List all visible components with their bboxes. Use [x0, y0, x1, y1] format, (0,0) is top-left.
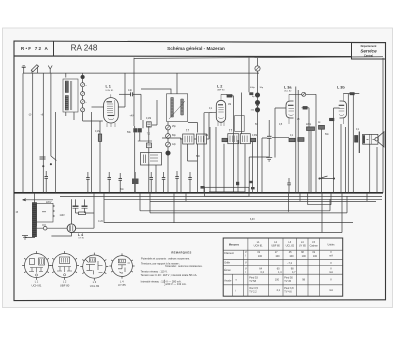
trimmer capacitor chain input	[81, 73, 88, 121]
coil winding a	[65, 81, 68, 93]
table outer frame	[223, 238, 343, 296]
capacitor mid	[267, 120, 272, 157]
wire top HT rail	[134, 57, 383, 59]
antenna ground electrode	[22, 66, 26, 74]
svg-text:220V: 220V	[46, 202, 52, 204]
svg-text:Mesures: Mesures	[229, 243, 240, 246]
resistor smoothing	[76, 212, 95, 215]
trimmer capacitor above L3a	[302, 92, 306, 96]
svg-text:RA 248: RA 248	[71, 43, 98, 52]
tube L1 envelope	[104, 98, 119, 123]
svg-text:k: k	[86, 102, 87, 104]
socket L4 label	[118, 279, 126, 287]
svg-text:UY 85: UY 85	[118, 283, 126, 287]
svg-text:4,7: 4,7	[292, 271, 296, 274]
svg-text:UCH 81: UCH 81	[106, 90, 115, 92]
wire rail 7	[70, 232, 342, 234]
wire under coil	[83, 120, 103, 122]
wire vertical x134	[133, 58, 135, 126]
svg-text:TV 58: TV 58	[249, 280, 256, 283]
wire vertical x141	[140, 94, 142, 120]
capacitor above chassis far left c	[119, 173, 123, 193]
svg-text:6,3V: 6,3V	[250, 219, 255, 221]
tube socket L2	[50, 251, 79, 280]
svg-text:100: 100	[258, 255, 263, 258]
wire rail 6	[104, 222, 353, 224]
svg-text:L 2: L 2	[217, 84, 222, 88]
outer drawing border frame	[14, 41, 386, 301]
svg-text:0,3M: 0,3M	[252, 135, 257, 137]
svg-text:REMARQUES: REMARQUES	[171, 250, 191, 254]
power transformer primary winding	[32, 193, 36, 237]
resistor box pair	[147, 100, 158, 193]
socket L2 label	[60, 280, 70, 288]
svg-text:L 4: L 4	[78, 233, 83, 237]
divider RIF cell	[53, 41, 55, 56]
svg-text:L 1: L 1	[106, 85, 111, 89]
wire verticals mid-left	[91, 112, 93, 193]
svg-text:UCH 81: UCH 81	[32, 284, 42, 288]
tube socket L1	[22, 251, 51, 280]
capacitor above chassis mid e	[188, 172, 192, 193]
svg-text:L 3a: L 3a	[284, 85, 292, 89]
svg-text:C.20: C.20	[98, 221, 104, 223]
wire L3a links	[275, 87, 316, 193]
svg-text:TV 2,2: TV 2,2	[249, 290, 257, 293]
svg-text:mA: mA	[329, 289, 333, 292]
svg-text:UBF 80: UBF 80	[60, 284, 70, 288]
resistor right of L3a	[303, 107, 307, 110]
svg-text:UCL 82: UCL 82	[286, 244, 295, 247]
capacitor above chassis far left a	[45, 171, 49, 193]
wire verticals between stages	[238, 93, 262, 193]
socket L1 label	[32, 280, 42, 288]
IF transformer box pair 1	[180, 128, 209, 144]
svg-text:1,4: 1,4	[278, 271, 282, 274]
wire tube L1 anode	[118, 73, 125, 107]
ferrite rod antenna	[31, 65, 38, 74]
title block header	[14, 41, 386, 59]
svg-text:1M: 1M	[205, 135, 208, 137]
wire rail 3	[150, 200, 376, 202]
svg-text:Anode: Anode	[224, 279, 232, 282]
svg-text:400p: 400p	[250, 87, 256, 89]
svg-text:100: 100	[302, 255, 307, 258]
resistor L2 anode stopper	[227, 95, 232, 98]
table texts	[224, 241, 335, 294]
svg-text:Tension aux C.20 : 118 V ; int: Tension aux C.20 : 118 V ; intensité tot…	[141, 273, 198, 277]
potentiometer block above chassis	[132, 172, 139, 193]
switch right	[319, 176, 335, 179]
wire IF1 to L2	[209, 113, 212, 139]
svg-text:UCL 82: UCL 82	[90, 284, 100, 288]
antenna symbol	[48, 66, 52, 74]
wire chassis bus	[14, 192, 383, 194]
svg-text:Département: Département	[361, 44, 377, 48]
wire grid line to coil	[92, 106, 104, 108]
svg-text:4,1: 4,1	[277, 289, 281, 292]
socket L3 label	[90, 280, 100, 288]
svg-text:220 V — 132 mA.: 220 V — 132 mA.	[166, 282, 187, 286]
svg-text:100: 100	[275, 278, 280, 281]
svg-text:l’intensité : outre les résist: l’intensité : outre les résistances.	[165, 264, 203, 268]
resistor c	[289, 138, 295, 141]
choke coil near speaker	[355, 136, 358, 143]
capacitor row above chassis 1	[108, 172, 112, 193]
svg-text:TV 4,6: TV 4,6	[284, 290, 292, 293]
electrolytic capacitor C2	[82, 199, 88, 213]
wire L4 heater drop	[51, 193, 94, 236]
wire speaker feed vertical	[358, 132, 360, 154]
resistor b	[251, 138, 256, 141]
capacitor above chassis right a	[236, 182, 239, 185]
svg-text:100: 100	[313, 255, 318, 258]
resistor left mid	[98, 134, 101, 141]
IF trimmer chain	[250, 58, 264, 193]
svg-text:14p: 14p	[128, 89, 133, 92]
svg-text:UY 85: UY 85	[78, 238, 84, 240]
resistor under L1	[130, 115, 138, 193]
svg-text:Potentiels et courants : valeu: Potentiels et courants : valeurs moyenne…	[141, 257, 190, 261]
capacitor row above chassis 4	[175, 171, 179, 193]
output transformer	[363, 134, 378, 144]
svg-text:Cadran: Cadran	[310, 244, 319, 247]
svg-text:UCH 81: UCH 81	[254, 244, 264, 247]
fuse bead	[37, 226, 68, 230]
capacitor above chassis right c	[251, 187, 255, 189]
wire coil connections	[66, 73, 74, 120]
svg-text:0,1M: 0,1M	[146, 118, 151, 120]
svg-text:220p: 220p	[306, 124, 312, 126]
tube L3b envelope (half section)	[340, 101, 347, 118]
wire coil secondary drop	[55, 112, 57, 193]
svg-text:Unités: Unités	[327, 243, 335, 246]
capacitor row above chassis 3	[162, 172, 166, 193]
wire heater rail 1	[60, 195, 382, 197]
service dept box	[352, 43, 386, 59]
switch area left	[33, 156, 57, 193]
svg-text:110V: 110V	[60, 215, 66, 217]
electrolytic capacitor C1	[73, 199, 79, 213]
oscillator coil box T1	[167, 94, 188, 122]
capacitor coupling 14p	[119, 89, 141, 96]
capacitor row above chassis 2	[150, 172, 154, 193]
resistor a	[222, 138, 227, 141]
svg-text:1M: 1M	[228, 104, 231, 106]
resistor above chassis left	[201, 186, 205, 189]
tube L3b electrodes	[339, 93, 345, 124]
header bottom rule	[14, 55, 352, 58]
wire T1 top	[141, 89, 171, 94]
wire rail 4	[140, 210, 330, 212]
svg-text:Grille: Grille	[224, 262, 230, 265]
svg-text:0,1M: 0,1M	[95, 131, 100, 133]
coil winding b	[65, 96, 68, 111]
svg-text:L 3b: L 3b	[337, 85, 345, 89]
ground mid	[266, 158, 272, 162]
wire right verticals	[370, 58, 383, 193]
tube L2 envelope	[216, 100, 225, 122]
svg-text:Schéma général - Mazeran: Schéma général - Mazeran	[167, 46, 225, 51]
wire transformer bottom to ground	[25, 222, 36, 238]
rectifier tube L4	[67, 224, 94, 233]
tube L3a envelope (half section)	[286, 101, 294, 118]
tube socket L4	[109, 253, 134, 278]
svg-text:Écran: Écran	[224, 269, 231, 272]
IF transformer box pair 2	[228, 129, 251, 144]
svg-text:R•F 72 A: R•F 72 A	[21, 46, 49, 51]
resistor right vert	[307, 125, 325, 130]
wire verticals center field	[210, 127, 253, 193]
svg-text:Service: Service	[360, 48, 377, 53]
svg-text:UBF 80: UBF 80	[217, 89, 225, 91]
resistor d	[298, 138, 304, 142]
small value labels sprinkled	[16, 104, 360, 223]
padder trimmer chain 2	[166, 122, 171, 193]
oscillator box 2	[141, 153, 162, 166]
wire L3b links	[334, 94, 360, 193]
svg-text:+4V: +4V	[130, 115, 135, 117]
power transformer core	[37, 203, 54, 222]
svg-text:UBF 80: UBF 80	[271, 244, 280, 247]
coil core lines	[71, 81, 72, 110]
capacitor above chassis right b	[250, 181, 253, 183]
capacitor above L3b	[350, 93, 354, 95]
tube L3a electrodes	[288, 94, 294, 124]
tube L1 electrodes	[107, 94, 116, 127]
svg-text:0,2: 0,2	[261, 271, 265, 274]
power transformer secondary loops	[53, 205, 54, 217]
svg-text:TV 45: TV 45	[284, 280, 291, 283]
mains lead arrow	[23, 199, 54, 201]
pot box	[205, 187, 250, 196]
svg-text:UCL 82: UCL 82	[284, 90, 292, 92]
wire T1 top feed	[176, 73, 178, 94]
resistor left of L3b	[330, 118, 334, 120]
wire bottom-right nest	[289, 193, 368, 233]
svg-text:mA: mA	[329, 271, 333, 274]
IF can outline	[235, 116, 245, 132]
capacitor above chassis far left b	[86, 172, 90, 193]
svg-text:Filament: Filament	[224, 252, 234, 255]
ground power	[22, 236, 28, 240]
capacitor under L1	[138, 120, 152, 141]
wire mid drops	[249, 157, 269, 193]
tube L2 electrodes	[218, 94, 224, 126]
table grid lines	[223, 238, 343, 296]
resistor near x249	[249, 92, 253, 95]
wire verticals from antenna group	[22, 73, 24, 193]
wire heater rail 2	[104, 198, 382, 200]
wire L2 connections	[204, 94, 234, 193]
wire links left-mid	[104, 123, 198, 223]
svg-text:mA: mA	[329, 255, 333, 258]
wire AVC rail	[23, 72, 259, 74]
svg-text:Tension réseau : 110 V.: Tension réseau : 110 V.	[141, 269, 168, 273]
svg-text:−7,2: −7,2	[287, 262, 293, 265]
tube socket L3	[80, 253, 108, 281]
input coil shield box	[63, 79, 78, 112]
capacitor above chassis right d	[287, 178, 291, 193]
svg-text:100: 100	[289, 255, 294, 258]
loudspeaker	[375, 132, 384, 147]
svg-text:100: 100	[275, 255, 280, 258]
wire rail 5	[150, 212, 347, 214]
svg-text:UY 85: UY 85	[299, 244, 307, 247]
